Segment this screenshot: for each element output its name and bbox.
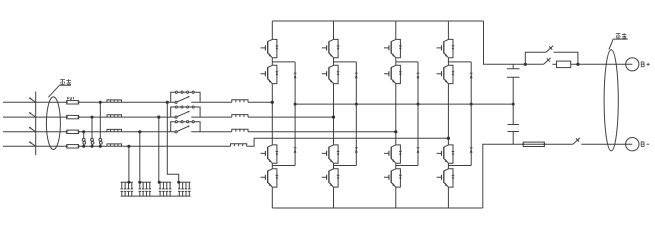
arrester branch A phase wire: [99, 102, 101, 146]
transistor Q13: [437, 39, 455, 57]
wire leg 4 clamp taps: [448, 62, 471, 166]
fuse FU2: [66, 115, 80, 118]
node midpoint leg 2: [355, 103, 358, 106]
wire neutral N input: [3, 145, 231, 147]
transistor Q14: [437, 65, 455, 83]
node arrester A top: [99, 101, 102, 104]
node arrester A bottom: [99, 145, 102, 148]
wire neutral cap drop: [128, 146, 130, 182]
diode D8 clamp lower leg 4: [470, 148, 473, 153]
label ferrite right leader: [609, 39, 628, 50]
node precharge branch right: [576, 63, 579, 66]
contactor KM3: [167, 121, 200, 133]
transistor Q9: [384, 39, 402, 57]
arrester coil A: [99, 138, 102, 144]
fuse FU1: [66, 101, 80, 104]
arrester branch C phase wire: [83, 132, 85, 147]
breaker QF pole 1: [29, 97, 36, 102]
terminal B-: [626, 138, 639, 151]
leg 3 main vertical: [395, 21, 397, 208]
node arrester C top: [82, 130, 85, 133]
node phase C cap drop: [138, 130, 141, 133]
inductor L7: [232, 129, 248, 132]
capacitor group 3: [159, 182, 172, 196]
diode D5 clamp upper leg 3: [417, 73, 420, 78]
wire phase A cap drop: [167, 102, 178, 182]
label ferrite right text: [616, 33, 627, 38]
diode D4 clamp lower leg 2: [355, 148, 358, 153]
node cap group 3 feed: [158, 181, 161, 184]
transistor Q1: [261, 39, 279, 57]
arrester coil C: [82, 138, 85, 144]
diode D7 clamp upper leg 4: [470, 73, 473, 78]
inductor L2: [107, 115, 122, 117]
wire phase A input: [3, 101, 167, 103]
fuse FU3: [66, 130, 80, 133]
node fuse FU5 right: [543, 143, 545, 145]
breaker QF linkage: [35, 92, 37, 156]
inductor L1: [107, 100, 122, 102]
node midpoint leg 4: [470, 103, 473, 106]
node arrester C bottom: [82, 145, 85, 148]
capacitor group 2: [139, 182, 152, 196]
transistor Q16: [437, 169, 455, 187]
wire leg 4 clamp vertical: [470, 62, 472, 166]
capacitor C5 upper DC link: [507, 64, 520, 104]
node midpoint leg 1: [294, 103, 297, 106]
wire DC negative riser: [483, 144, 523, 208]
transistor Q7: [322, 145, 340, 163]
contactor KM2: [167, 106, 200, 118]
fuse FU5 negative: [523, 142, 544, 146]
leg 2 main vertical: [333, 21, 335, 208]
wire leg 1 clamp taps: [272, 62, 295, 166]
diode D6 clamp lower leg 3: [417, 148, 420, 153]
breaker QF pole 4: [29, 141, 36, 146]
leg 1 main vertical: [271, 21, 273, 208]
inductor L3: [107, 129, 122, 131]
node phase A leg 1: [271, 101, 274, 104]
wire negative line: [523, 143, 632, 145]
label ferrite left text: [60, 79, 71, 84]
ferrite ring left: [46, 97, 60, 150]
node cap group 1 feed: [127, 181, 130, 184]
node midpoint cap tap: [512, 103, 515, 106]
resistor R1 precharge: [557, 61, 571, 68]
transistor Q4: [261, 169, 279, 187]
fuse FU4: [66, 145, 80, 148]
transistor Q6: [322, 65, 340, 83]
wire positive after switch: [552, 63, 556, 65]
wire leg 3 clamp taps: [396, 62, 418, 166]
wire leg 2 clamp taps: [334, 62, 357, 166]
wire phase A to bridge: [200, 101, 272, 103]
inductor L6: [232, 115, 248, 118]
label B-: [641, 142, 649, 147]
fuse FU1 label: [68, 97, 74, 99]
diode D2 clamp lower leg 1: [294, 148, 297, 153]
capacitor group 1: [121, 182, 134, 196]
wire leg 2 clamp vertical: [355, 62, 357, 166]
contactor KM1: [167, 91, 200, 103]
switch S1 bypass: [546, 46, 553, 53]
wire phase C to bridge: [200, 131, 396, 133]
breaker QF pole 2: [29, 112, 36, 117]
wire bridge bottom rail: [272, 207, 483, 209]
breaker QF pole 3: [29, 127, 36, 132]
transistor Q5: [322, 39, 340, 57]
transistor Q2: [261, 65, 279, 83]
node phase C leg 3: [394, 130, 397, 133]
wire phase C cap drop: [139, 132, 141, 182]
node phase B leg 2: [332, 116, 335, 119]
node neutral cap drop: [127, 145, 130, 148]
wire phase C input: [3, 131, 167, 133]
capacitor C6 lower DC link: [508, 104, 520, 144]
node precharge branch left: [524, 63, 527, 66]
transistor Q15: [437, 145, 455, 163]
wire neutral to bridge: [247, 138, 449, 146]
switch S3 negative: [573, 138, 580, 145]
arrester coil B: [91, 138, 94, 144]
node cap group 4 feed: [177, 181, 180, 184]
transistor Q3: [261, 145, 279, 163]
wire leg 3 clamp vertical: [417, 62, 419, 166]
wire phase B cap drop: [158, 117, 160, 182]
node midpoint leg 3: [417, 103, 420, 106]
node neutral leg 4: [447, 137, 450, 140]
wire phase B to bridge: [200, 116, 333, 118]
wire positive to terminal: [571, 63, 633, 65]
leg 4 main vertical: [447, 21, 449, 208]
wire DC midpoint bus: [295, 103, 513, 105]
switch S2 main: [544, 58, 551, 65]
wire DC positive riser: [484, 21, 544, 64]
label B+: [641, 62, 650, 67]
node arrester B bottom: [91, 145, 94, 148]
label ferrite left leader: [48, 85, 71, 97]
node cap group 2 feed: [138, 181, 141, 184]
transistor Q11: [384, 145, 402, 163]
wire leg 1 clamp vertical: [294, 62, 296, 166]
node phase B cap drop: [157, 116, 160, 119]
inductor L5: [232, 100, 248, 103]
transistor Q12: [384, 169, 402, 187]
transistor Q10: [384, 65, 402, 83]
node phase A cap drop: [166, 101, 169, 104]
wire precharge branch: [525, 52, 578, 64]
terminal B+: [626, 58, 639, 71]
transistor Q8: [322, 169, 340, 187]
wire bridge top rail: [272, 20, 483, 22]
wire cap bank bottom bus: [121, 195, 191, 197]
ferrite ring right: [604, 50, 618, 151]
inductor L4: [107, 144, 122, 146]
capacitor group 4: [178, 182, 191, 196]
wire phase B input: [3, 116, 167, 118]
node fuse FU5 left: [522, 143, 524, 145]
arrester branch B phase wire: [91, 117, 93, 146]
node arrester B top: [91, 116, 94, 119]
diode D3 clamp upper leg 2: [355, 73, 358, 78]
inductor L8: [231, 144, 247, 147]
diode D1 clamp upper leg 1: [294, 73, 297, 78]
